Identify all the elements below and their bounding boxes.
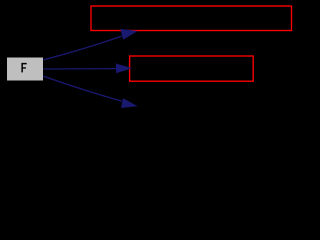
node box2 (red) [130,56,254,81]
node F [7,57,44,81]
wire F to hidden node [44,76,137,107]
wire F to box2 [44,64,131,73]
wire F to box1 [44,29,137,60]
node box1 (red) [91,6,292,31]
